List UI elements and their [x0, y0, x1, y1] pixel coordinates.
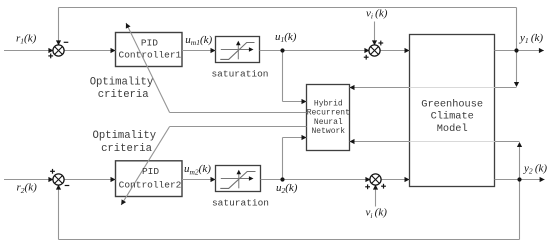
svg-text:Model: Model — [437, 123, 468, 135]
svg-text:u2​(k): u2​(k) — [276, 182, 298, 195]
svg-text:PID: PID — [142, 166, 159, 177]
svg-text:saturation: saturation — [212, 198, 269, 209]
svg-text:saturation: saturation — [211, 68, 268, 79]
svg-text:criteria: criteria — [101, 143, 152, 155]
svg-text:vi​ (k): vi​ (k) — [366, 207, 388, 220]
svg-text:criteria: criteria — [98, 89, 149, 101]
svg-text:Controller2: Controller2 — [119, 179, 182, 190]
svg-text:y2​ (k): y2​ (k) — [523, 162, 547, 175]
svg-text:r2​(k): r2​(k) — [17, 182, 38, 195]
svg-text:Hybrid: Hybrid — [314, 99, 343, 108]
svg-text:Greenhouse: Greenhouse — [421, 98, 483, 110]
svg-text:u1​(k): u1​(k) — [275, 31, 297, 44]
svg-text:vi​ (k): vi​ (k) — [366, 8, 388, 21]
svg-text:Climate: Climate — [431, 111, 474, 123]
svg-text:um1​(k): um1​(k) — [185, 34, 212, 47]
svg-text:PID: PID — [141, 38, 158, 49]
svg-text:Controller1: Controller1 — [119, 50, 182, 61]
svg-text:Recurrent: Recurrent — [307, 109, 350, 118]
svg-text:Neural: Neural — [314, 118, 343, 127]
svg-text:Network: Network — [311, 127, 345, 136]
svg-text:y1​ (k): y1​ (k) — [519, 32, 543, 45]
svg-text:Optimality: Optimality — [90, 76, 154, 88]
svg-text:Optimality: Optimality — [93, 130, 157, 142]
svg-text:um2​(k): um2​(k) — [184, 163, 211, 176]
svg-text:r1​(k): r1​(k) — [16, 33, 37, 46]
